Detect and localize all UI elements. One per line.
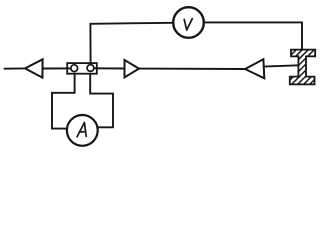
wire: specimen to right arrow [264,65,299,66]
terminal circle (left) [71,65,78,72]
label V [184,19,192,30]
label A [77,123,86,137]
wire: riser from box to voltmeter line [89,24,91,63]
wire: input lead (far left) [5,67,26,69]
wire: middle long line between arrows [139,68,245,70]
wire: ammeter branch left [52,74,75,129]
wire: voltmeter to right corner and drop to specimen [204,22,302,49]
wire: box to right-pointing arrow [94,67,125,69]
wire: arrow to terminal box [43,67,71,69]
arrow: right-pointing direction arrow [125,60,140,77]
terminal box (shunt block) [67,63,97,74]
ammeter U2 circle [67,115,98,146]
arrow: left-pointing direction arrow (input) [25,59,43,77]
wire: ammeter branch right [90,74,113,128]
terminal circle (right) [87,65,94,72]
voltmeter U1 circle [173,7,204,38]
wire: top line to voltmeter [90,23,173,24]
specimen: hatched I-section electrode [254,48,320,86]
arrow: left-pointing direction arrow (right side) [245,59,264,78]
